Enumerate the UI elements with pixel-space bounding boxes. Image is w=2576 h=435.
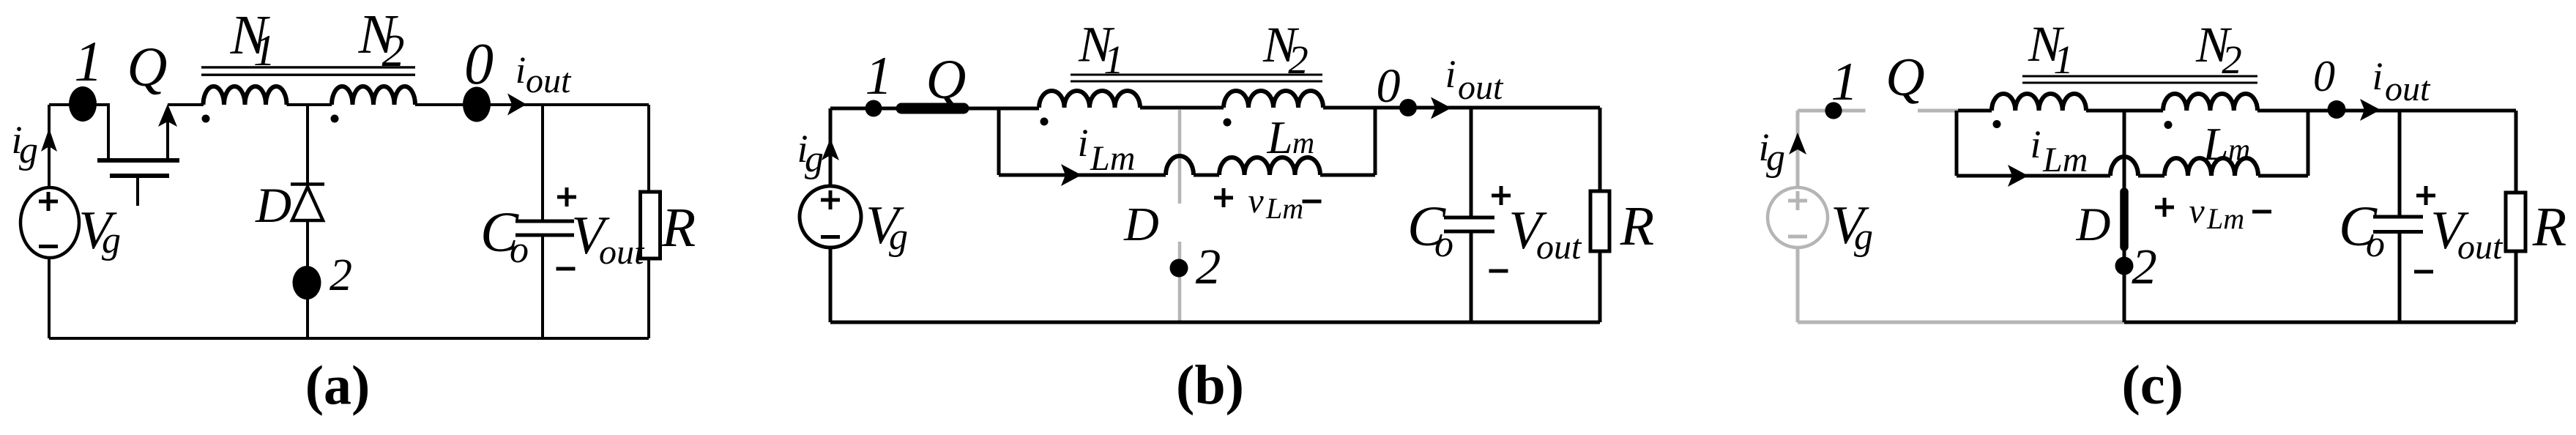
- svg-text:(c): (c): [2122, 354, 2184, 416]
- svg-text:m: m: [1292, 127, 1314, 160]
- svg-text:2: 2: [330, 250, 352, 300]
- svg-text:Lm: Lm: [2042, 141, 2088, 179]
- svg-text:R: R: [2532, 196, 2566, 258]
- svg-text:o: o: [1434, 223, 1453, 265]
- svg-text:2: 2: [382, 26, 405, 76]
- svg-text:2: 2: [1196, 239, 1221, 294]
- svg-text:Q: Q: [127, 37, 168, 98]
- svg-text:D: D: [1123, 198, 1159, 251]
- svg-text:D: D: [255, 177, 291, 233]
- svg-text:g: g: [889, 216, 908, 258]
- svg-text:R: R: [661, 197, 696, 259]
- svg-text:g: g: [1766, 137, 1785, 179]
- svg-text:o: o: [510, 229, 529, 271]
- svg-text:R: R: [1620, 196, 1654, 257]
- svg-text:1: 1: [1103, 37, 1124, 82]
- svg-text:Q: Q: [1886, 48, 1924, 108]
- svg-text:D: D: [2076, 198, 2111, 251]
- svg-text:2: 2: [1288, 37, 1309, 82]
- svg-text:v: v: [2189, 192, 2205, 231]
- svg-text:1: 1: [253, 26, 275, 75]
- svg-text:o: o: [2366, 223, 2385, 265]
- svg-text:out: out: [1458, 68, 1504, 107]
- svg-text:m: m: [2228, 133, 2250, 167]
- svg-text:1: 1: [74, 29, 103, 93]
- svg-text:2: 2: [2222, 37, 2242, 82]
- svg-text:out: out: [2457, 228, 2504, 267]
- svg-text:i: i: [1445, 52, 1456, 96]
- svg-text:out: out: [599, 233, 645, 272]
- svg-text:out: out: [2385, 70, 2431, 108]
- svg-text:g: g: [805, 138, 824, 180]
- svg-text:g: g: [19, 130, 38, 171]
- svg-text:0: 0: [464, 32, 494, 97]
- svg-text:g: g: [102, 220, 121, 261]
- svg-text:i: i: [1077, 121, 1088, 165]
- svg-text:g: g: [1854, 216, 1873, 258]
- svg-text:2: 2: [2132, 239, 2157, 294]
- svg-text:Q: Q: [926, 49, 967, 111]
- svg-text:i: i: [515, 50, 526, 92]
- svg-text:out: out: [526, 62, 572, 100]
- svg-text:1: 1: [1831, 52, 1858, 112]
- svg-text:out: out: [1536, 228, 1582, 267]
- svg-text:Lm: Lm: [2206, 202, 2244, 235]
- svg-text:i: i: [2372, 54, 2383, 98]
- svg-text:(a): (a): [305, 355, 371, 417]
- svg-text:i: i: [2030, 122, 2041, 166]
- svg-text:1: 1: [866, 46, 893, 106]
- svg-text:L: L: [1266, 112, 1292, 163]
- svg-text:0: 0: [1377, 59, 1401, 113]
- svg-text:v: v: [1248, 182, 1264, 220]
- svg-text:(b): (b): [1176, 354, 1244, 416]
- svg-text:0: 0: [2313, 52, 2335, 100]
- svg-text:L: L: [2202, 119, 2228, 170]
- svg-text:1: 1: [2053, 37, 2074, 82]
- svg-text:Lm: Lm: [1090, 139, 1135, 178]
- svg-text:Lm: Lm: [1265, 192, 1303, 225]
